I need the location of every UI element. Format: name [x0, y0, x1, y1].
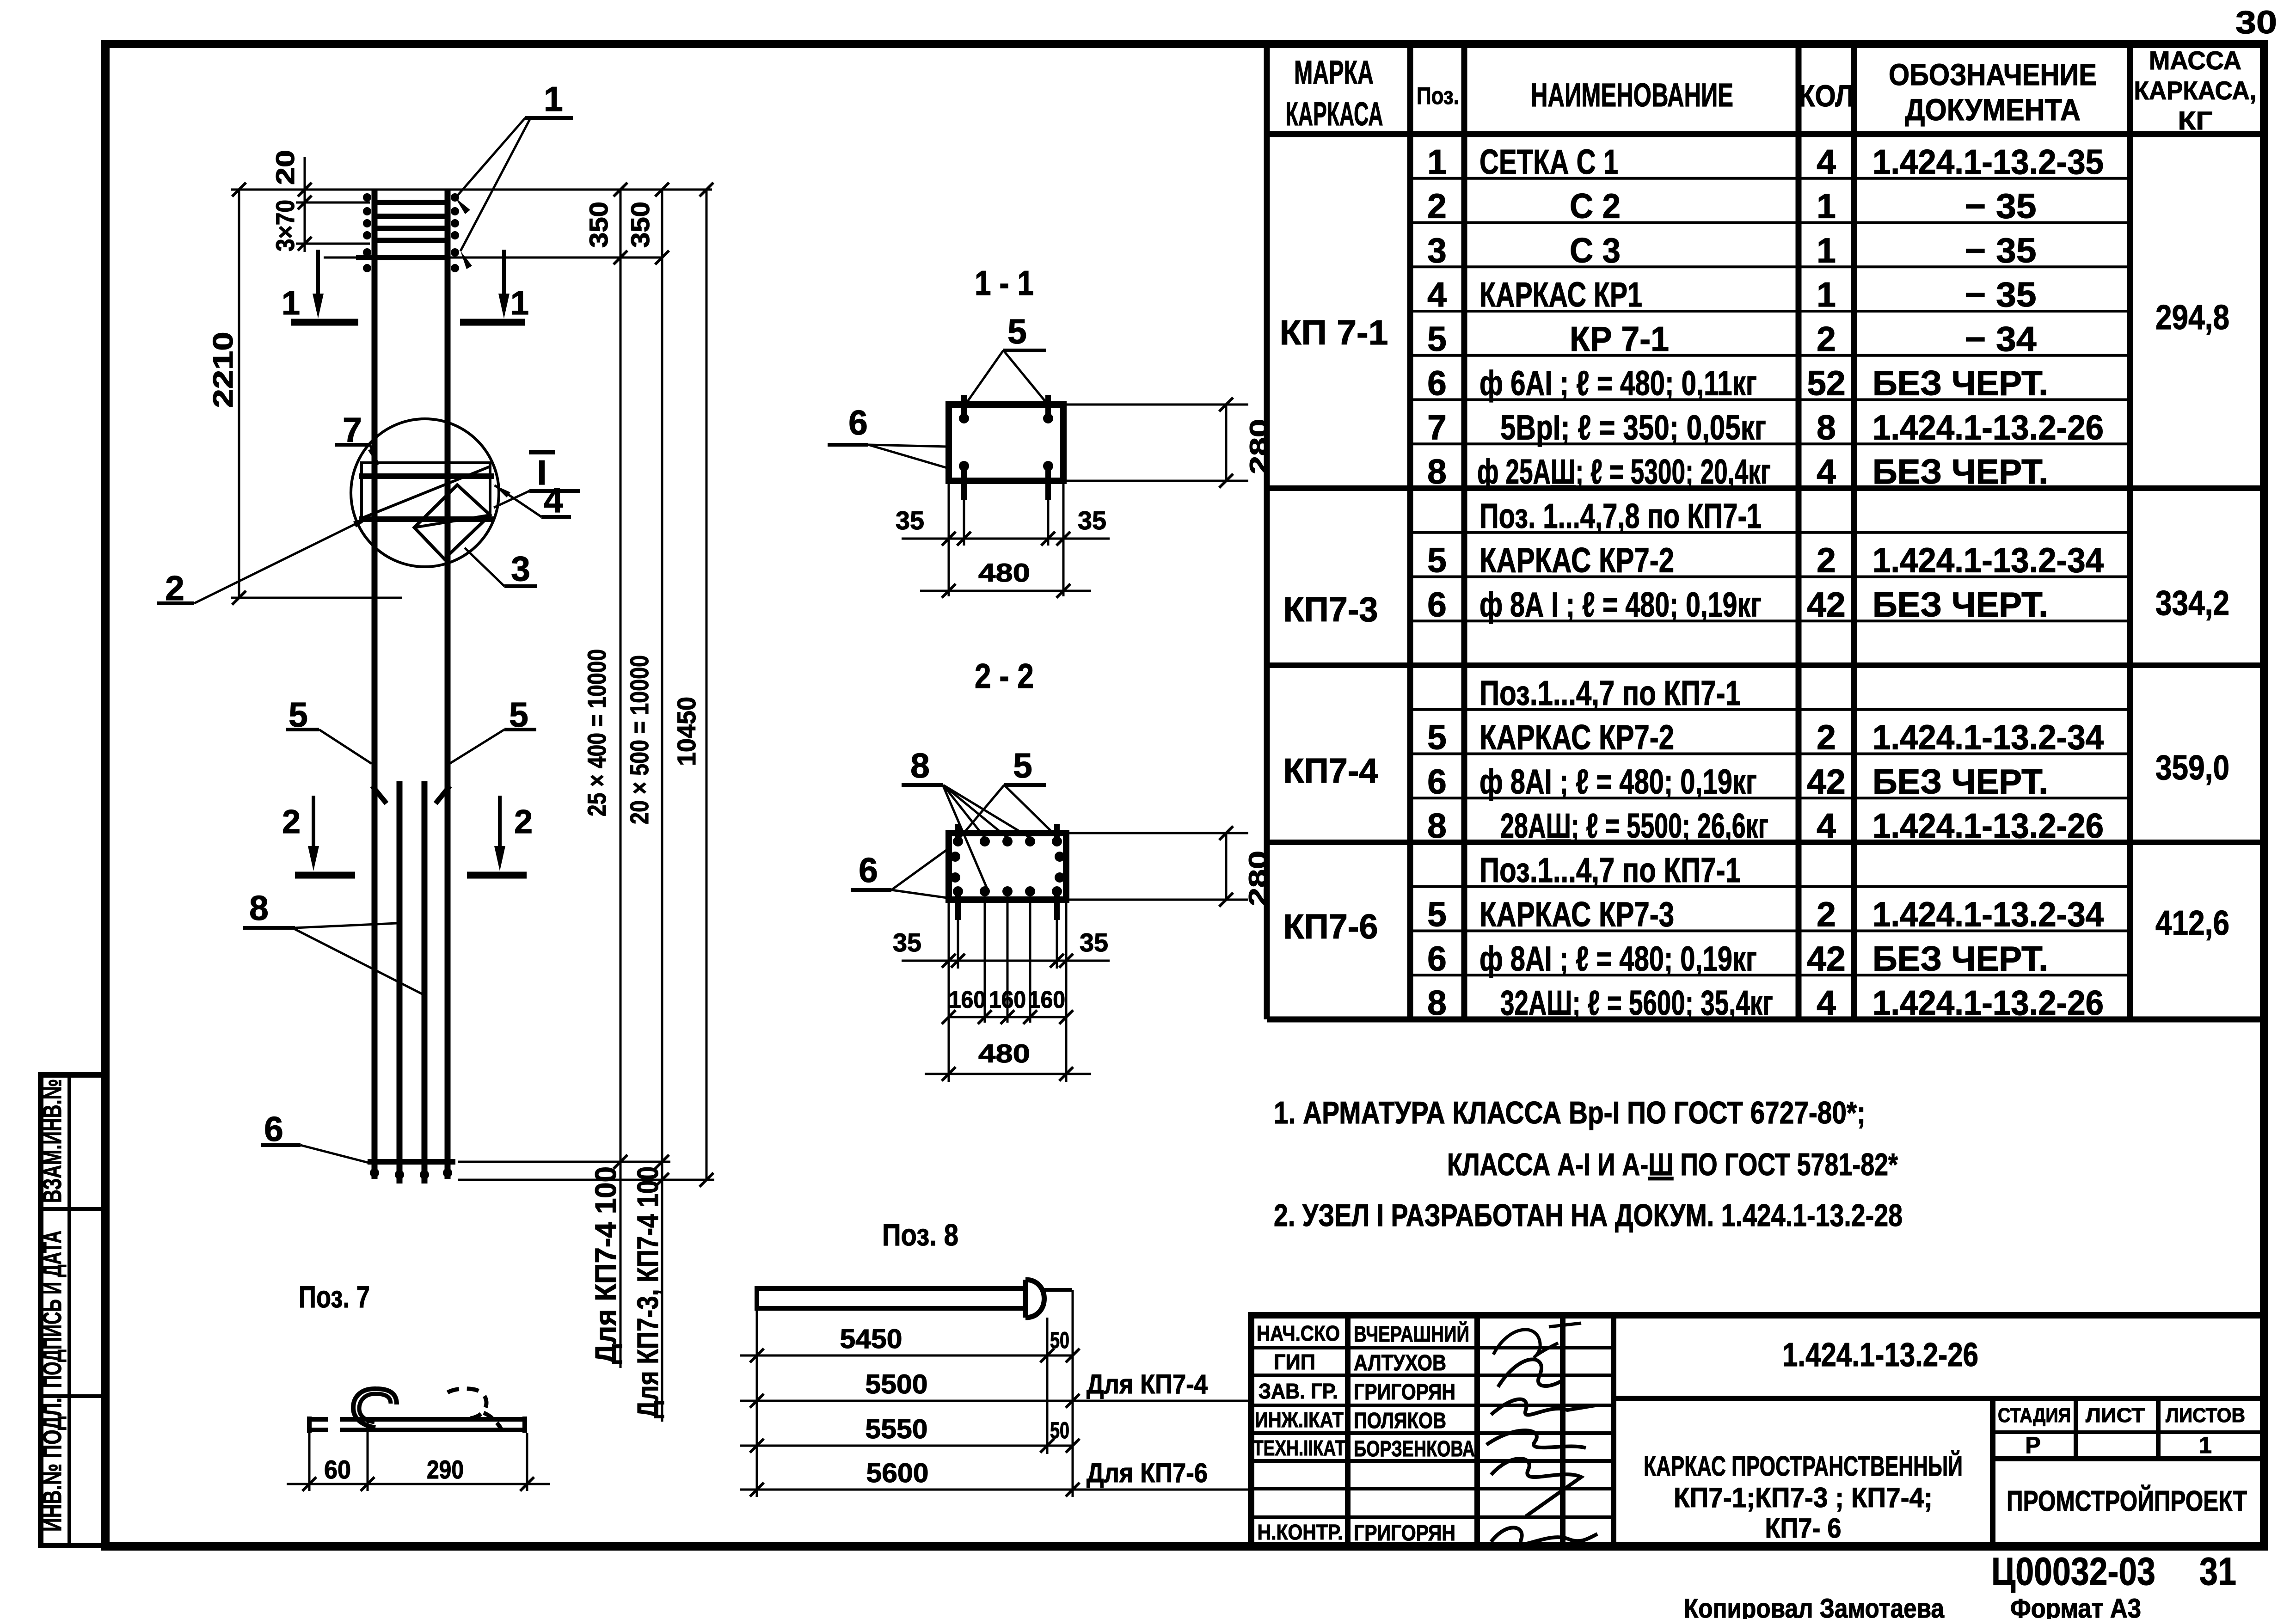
svg-text:КГ: КГ — [2178, 106, 2213, 135]
svg-text:ПОДПИСЬ И ДАТА: ПОДПИСЬ И ДАТА — [37, 1231, 67, 1388]
outer bar left (poz.5) — [372, 190, 378, 1179]
svg-text:7: 7 — [1427, 408, 1447, 447]
left stamp strip — [41, 1075, 105, 1545]
svg-text:ф 8АI ; ℓ = 480; 0,19кг: ф 8АI ; ℓ = 480; 0,19кг — [1480, 939, 1757, 978]
svg-text:ПРОМСТРОЙПРОЕКТ: ПРОМСТРОЙПРОЕКТ — [2007, 1485, 2247, 1517]
svg-text:Для КП7-3, КП7-4 100: Для КП7-3, КП7-4 100 — [631, 1166, 664, 1418]
svg-text:СТАДИЯ: СТАДИЯ — [1998, 1404, 2071, 1427]
svg-text:2: 2 — [1817, 718, 1836, 757]
svg-text:5: 5 — [1007, 312, 1027, 351]
title block outline — [1251, 1315, 2264, 1546]
svg-text:2: 2 — [1427, 187, 1447, 226]
svg-text:Н.КОНТР.: Н.КОНТР. — [1258, 1520, 1343, 1544]
section 2-2 bars top/bottom — [953, 836, 963, 846]
svg-text:БЕЗ ЧЕРТ.: БЕЗ ЧЕРТ. — [1872, 364, 2048, 403]
svg-text:БЕЗ ЧЕРТ.: БЕЗ ЧЕРТ. — [1872, 452, 2048, 491]
svg-text:С 3: С 3 — [1570, 231, 1621, 270]
table outer & column lines — [1264, 44, 1270, 1019]
svg-text:32АШ; ℓ = 5600; 35,4кг: 32АШ; ℓ = 5600; 35,4кг — [1500, 983, 1773, 1022]
svg-text:25 × 400 = 10000: 25 × 400 = 10000 — [582, 649, 611, 816]
section 1-1 dim 280 — [1065, 404, 1248, 406]
svg-text:С 2: С 2 — [1570, 187, 1621, 226]
title block rows left — [1251, 1346, 1614, 1349]
svg-text:КЛАССА А-I И А-Ш ПО ГОСТ 578: КЛАССА А-I И А-Ш ПО ГОСТ 5781-82* — [1447, 1147, 1898, 1182]
svg-text:ИНЖ.IКАТ: ИНЖ.IКАТ — [1255, 1408, 1344, 1432]
svg-text:− 35: − 35 — [1965, 187, 2037, 226]
pos8 hook head — [1025, 1280, 1044, 1318]
svg-text:1.424.1-13.2-26: 1.424.1-13.2-26 — [1872, 408, 2104, 447]
joint rung top — [359, 473, 494, 479]
svg-text:Поз. 8: Поз. 8 — [882, 1218, 958, 1252]
svg-text:350: 350 — [584, 202, 613, 248]
svg-text:42: 42 — [1807, 585, 1845, 624]
svg-text:280: 280 — [1243, 851, 1272, 906]
svg-text:5600: 5600 — [866, 1458, 929, 1488]
svg-text:Поз.: Поз. — [1417, 83, 1459, 110]
svg-text:Р: Р — [2025, 1432, 2040, 1458]
ext rung4 — [296, 243, 370, 245]
svg-text:КП7-3: КП7-3 — [1283, 590, 1378, 629]
svg-text:ВЧЕРАШНИЙ: ВЧЕРАШНИЙ — [1354, 1321, 1469, 1347]
ext line top (y410) — [231, 189, 712, 191]
svg-text:35: 35 — [1080, 928, 1108, 957]
pos8 bar — [757, 1288, 1025, 1308]
svg-text:5: 5 — [1427, 541, 1447, 580]
diamond (setka C3) — [414, 485, 490, 559]
svg-text:ф 8АI ; ℓ = 480; 0,19кг: ф 8АI ; ℓ = 480; 0,19кг — [1480, 762, 1757, 801]
svg-text:160: 160 — [989, 987, 1026, 1013]
pos8 dim 5500 — [740, 1400, 1248, 1402]
svg-text:КП 7-1: КП 7-1 — [1280, 313, 1388, 352]
svg-text:2: 2 — [1817, 319, 1836, 358]
svg-text:1.424.1-13.2-26: 1.424.1-13.2-26 — [1872, 983, 2104, 1022]
svg-text:28АШ; ℓ = 5500; 26,6кг: 28АШ; ℓ = 5500; 26,6кг — [1500, 806, 1768, 845]
svg-text:5450: 5450 — [840, 1324, 902, 1354]
svg-text:ГРИГОРЯН: ГРИГОРЯН — [1354, 1521, 1455, 1545]
svg-text:КАРКАС КР1: КАРКАС КР1 — [1480, 275, 1642, 314]
svg-text:8: 8 — [910, 746, 930, 785]
svg-text:1.424.1-13.2-34: 1.424.1-13.2-34 — [1872, 895, 2104, 934]
svg-text:20 × 500 = 10000: 20 × 500 = 10000 — [625, 655, 654, 824]
section 1-1 bottom dims — [948, 481, 950, 596]
bottom ext line bar end level — [458, 1179, 714, 1181]
svg-text:1.424.1-13.2-34: 1.424.1-13.2-34 — [1872, 718, 2104, 757]
svg-text:2 - 2: 2 - 2 — [975, 656, 1034, 695]
svg-text:Поз.1...4,7 по КП7-1: Поз.1...4,7 по КП7-1 — [1480, 674, 1741, 712]
svg-text:6: 6 — [1427, 762, 1447, 801]
svg-text:1.424.1-13.2-34: 1.424.1-13.2-34 — [1872, 541, 2104, 580]
pos8 dim 5450 — [740, 1355, 1073, 1357]
svg-text:Поз.1...4,7 по КП7-1: Поз.1...4,7 по КП7-1 — [1480, 851, 1741, 889]
svg-text:5: 5 — [1013, 746, 1032, 785]
svg-text:1. АРМАТУРА КЛАССА Вр-I ПО: 1. АРМАТУРА КЛАССА Вр-I ПО ГОСТ 6727-80*… — [1274, 1095, 1866, 1130]
joint rung bottom — [359, 516, 494, 522]
svg-text:6: 6 — [1427, 939, 1447, 978]
svg-text:Для КП7-4 100: Для КП7-4 100 — [589, 1166, 622, 1364]
svg-text:Для КП7-6: Для КП7-6 — [1087, 1458, 1208, 1488]
svg-text:10450: 10450 — [672, 697, 701, 766]
svg-text:ДОКУМЕНТА: ДОКУМЕНТА — [1905, 92, 2081, 127]
svg-text:35: 35 — [893, 928, 921, 957]
svg-text:1: 1 — [544, 80, 563, 118]
pos7 dims — [308, 1433, 311, 1491]
svg-text:Поз. 1...4,7,8 по КП7-1: Поз. 1...4,7,8 по КП7-1 — [1480, 497, 1762, 535]
svg-text:БОРЗЕНКОВА: БОРЗЕНКОВА — [1354, 1437, 1475, 1461]
right dim line 350 #2 — [661, 190, 663, 1422]
svg-text:160: 160 — [1028, 987, 1065, 1013]
svg-text:2: 2 — [1817, 895, 1836, 934]
inner bar 1 (poz.8) — [397, 781, 403, 1184]
svg-text:1 - 1: 1 - 1 — [975, 264, 1034, 302]
svg-text:60: 60 — [324, 1455, 351, 1484]
diamond inner diagonal — [414, 515, 490, 527]
pos8 dim 5600 — [740, 1489, 1248, 1491]
section 2-2 bottom dims 35 — [948, 900, 950, 1082]
svg-text:160: 160 — [949, 987, 986, 1013]
svg-text:5ВрI; ℓ = 350; 0,05кг: 5ВрI; ℓ = 350; 0,05кг — [1500, 408, 1766, 447]
lower mesh rung — [356, 255, 450, 260]
svg-text:350: 350 — [626, 202, 655, 248]
bend mark right bar — [436, 786, 450, 803]
svg-text:1: 1 — [510, 285, 529, 322]
svg-text:Для КП7-4: Для КП7-4 — [1087, 1369, 1208, 1399]
svg-text:КАРКАС КР7-2: КАРКАС КР7-2 — [1480, 718, 1674, 757]
section 1-1 bar stubs — [961, 395, 967, 418]
svg-text:359,0: 359,0 — [2155, 748, 2229, 787]
svg-text:6: 6 — [1427, 585, 1447, 624]
svg-text:ф 8А I ; ℓ = 480; 0,19кг: ф 8А I ; ℓ = 480; 0,19кг — [1480, 585, 1762, 624]
svg-text:1: 1 — [282, 285, 300, 322]
svg-text:8: 8 — [1427, 452, 1447, 491]
svg-text:1: 1 — [1427, 142, 1447, 181]
svg-text:5550: 5550 — [866, 1414, 928, 1444]
svg-text:КАРКАС КР7-3: КАРКАС КР7-3 — [1480, 895, 1674, 934]
svg-text:АЛТУХОВ: АЛТУХОВ — [1354, 1351, 1446, 1375]
svg-text:31: 31 — [2199, 1550, 2236, 1593]
svg-text:8: 8 — [1817, 408, 1836, 447]
svg-text:ЗАВ. ГР.: ЗАВ. ГР. — [1259, 1379, 1338, 1403]
svg-text:ф 6АI ; ℓ = 480; 0,11кг: ф 6АI ; ℓ = 480; 0,11кг — [1480, 364, 1757, 403]
pos7 hook dashed — [448, 1389, 486, 1419]
svg-text:1.424.1-13.2-26: 1.424.1-13.2-26 — [1872, 806, 2104, 845]
svg-text:1: 1 — [1817, 231, 1836, 270]
svg-text:БЕЗ ЧЕРТ.: БЕЗ ЧЕРТ. — [1872, 939, 2048, 978]
svg-text:6: 6 — [848, 403, 868, 442]
signature squiggles — [1493, 1323, 1581, 1357]
svg-text:2210: 2210 — [208, 332, 239, 408]
svg-text:4: 4 — [1427, 275, 1447, 314]
svg-text:1: 1 — [1817, 275, 1836, 314]
svg-text:ТЕХН.IIКАТ: ТЕХН.IIКАТ — [1253, 1436, 1345, 1460]
bottom ext line rung level — [458, 1161, 670, 1163]
dim 2210 line — [238, 190, 240, 598]
svg-text:БЕЗ ЧЕРТ.: БЕЗ ЧЕРТ. — [1872, 762, 2048, 801]
svg-text:Копировал Замотаева: Копировал Замотаева — [1684, 1594, 1945, 1619]
svg-text:334,2: 334,2 — [2155, 583, 2229, 622]
svg-text:4: 4 — [1817, 452, 1836, 491]
svg-text:БЕЗ ЧЕРТ.: БЕЗ ЧЕРТ. — [1872, 585, 2048, 624]
svg-text:2: 2 — [1817, 541, 1836, 580]
svg-text:35: 35 — [896, 506, 924, 535]
table row lines — [1410, 177, 2130, 180]
dim 20/3x70 line — [304, 157, 306, 252]
karkas KR1 box — [362, 463, 490, 519]
svg-text:5: 5 — [1427, 718, 1447, 757]
section 2-2 dim 480 — [925, 1073, 1091, 1075]
pos7 bar dashed part — [309, 1417, 356, 1422]
svg-text:6: 6 — [1427, 364, 1447, 403]
title block verticals — [1345, 1315, 1351, 1546]
svg-text:ВЗАМ.ИНВ.№: ВЗАМ.ИНВ.№ — [37, 1079, 67, 1203]
svg-text:4: 4 — [1817, 142, 1836, 181]
svg-text:ОБОЗНАЧЕНИЕ: ОБОЗНАЧЕНИЕ — [1889, 57, 2097, 92]
svg-text:ф 25АШ; ℓ = 5300; 20,4кг: ф 25АШ; ℓ = 5300; 20,4кг — [1477, 452, 1771, 491]
svg-text:480: 480 — [978, 1039, 1030, 1068]
svg-text:ГИП: ГИП — [1274, 1350, 1315, 1374]
svg-text:6: 6 — [859, 851, 878, 889]
svg-text:− 35: − 35 — [1965, 275, 2037, 314]
mesh rungs (setka C1) — [372, 200, 450, 205]
svg-text:280: 280 — [1244, 419, 1273, 474]
right dim line 350 #1 — [620, 190, 622, 1368]
svg-text:42: 42 — [1807, 762, 1845, 801]
svg-text:ЛИСТ: ЛИСТ — [2086, 1404, 2145, 1427]
svg-text:3: 3 — [1427, 231, 1447, 270]
svg-text:КАРКАСА,: КАРКАСА, — [2134, 76, 2257, 105]
svg-text:1: 1 — [1817, 187, 1836, 226]
svg-text:8: 8 — [249, 889, 269, 927]
svg-text:50: 50 — [1050, 1327, 1069, 1353]
svg-text:35: 35 — [1078, 506, 1106, 535]
pos8 dim 5550 — [740, 1445, 1073, 1447]
svg-text:2: 2 — [514, 803, 533, 840]
svg-text:4: 4 — [544, 481, 563, 520]
bottom rung (poz.6) — [368, 1159, 455, 1165]
section 1-1 corner bars — [959, 413, 969, 423]
svg-text:5: 5 — [1427, 319, 1447, 358]
callout 1 leaders — [455, 118, 525, 198]
hook dots on bars — [363, 193, 371, 202]
svg-text:ГРИГОРЯН: ГРИГОРЯН — [1354, 1380, 1455, 1404]
section 2-2 bar stubs — [955, 824, 961, 839]
svg-text:3: 3 — [511, 549, 530, 588]
svg-text:МАРКА: МАРКА — [1294, 55, 1374, 91]
svg-text:4: 4 — [1817, 983, 1836, 1022]
pos8 ext lines — [756, 1308, 758, 1497]
pos7 hook solid outer — [353, 1389, 397, 1428]
ext rung5 (y557) — [324, 257, 661, 259]
svg-text:2: 2 — [282, 803, 301, 840]
svg-text:КАРКАС КР7-2: КАРКАС КР7-2 — [1480, 541, 1674, 580]
section 2-2 dims 160 — [984, 901, 986, 1023]
svg-text:НАЧ.СКО: НАЧ.СКО — [1257, 1321, 1340, 1345]
svg-text:294,8: 294,8 — [2155, 298, 2229, 337]
pos7 bar solid part — [356, 1417, 525, 1422]
section 1-1 frame (karkas) — [949, 405, 1063, 481]
svg-text:52: 52 — [1807, 364, 1845, 403]
outer bar right (poz.5) — [445, 190, 451, 1179]
svg-text:Поз. 7: Поз. 7 — [299, 1280, 370, 1314]
svg-text:3×70: 3×70 — [270, 200, 300, 251]
svg-text:КАРКАС ПРОСТРАНСТВЕННЫЙ: КАРКАС ПРОСТРАНСТВЕННЫЙ — [1644, 1451, 1963, 1482]
section 2-2 bars sides — [950, 852, 960, 862]
svg-text:5500: 5500 — [866, 1369, 928, 1399]
overall dim line 10450 — [706, 190, 708, 1180]
svg-text:8: 8 — [1427, 983, 1447, 1022]
svg-text:КП7-1;КП7-3 ; КП7-4;: КП7-1;КП7-3 ; КП7-4; — [1674, 1482, 1933, 1513]
svg-text:8: 8 — [1427, 806, 1447, 845]
svg-text:20: 20 — [270, 150, 300, 185]
svg-text:6: 6 — [264, 1110, 283, 1148]
svg-text:КП7-6: КП7-6 — [1283, 907, 1378, 946]
joint diagonal — [362, 466, 490, 518]
svg-text:42: 42 — [1807, 939, 1845, 978]
svg-text:КОЛ: КОЛ — [1799, 79, 1854, 113]
svg-text:1.424.1-13.2-35: 1.424.1-13.2-35 — [1872, 142, 2104, 181]
ext rung1 — [296, 202, 370, 204]
svg-text:412,6: 412,6 — [2155, 903, 2229, 942]
svg-text:КП7- 6: КП7- 6 — [1765, 1513, 1842, 1544]
svg-text:КР 7-1: КР 7-1 — [1570, 319, 1669, 358]
svg-text:1: 1 — [2199, 1432, 2212, 1458]
bend mark left bar — [372, 786, 387, 803]
inner bar 2 (poz.8) — [422, 781, 428, 1184]
svg-text:5: 5 — [1427, 895, 1447, 934]
svg-text:Формат А3: Формат А3 — [2010, 1594, 2141, 1619]
svg-text:4: 4 — [1817, 806, 1836, 845]
svg-text:30: 30 — [2235, 4, 2277, 40]
section 2-2 dim 280 — [1068, 832, 1248, 834]
svg-text:ПОЛЯКОВ: ПОЛЯКОВ — [1354, 1409, 1446, 1433]
svg-text:2. УЗЕЛ I РАЗРАБОТАН НА ДО: 2. УЗЕЛ I РАЗРАБОТАН НА ДОКУМ. 1.424.1-1… — [1274, 1198, 1903, 1233]
section 2-2 frame — [949, 833, 1066, 900]
svg-text:− 34: − 34 — [1965, 319, 2037, 358]
svg-text:СЕТКА С 1: СЕТКА С 1 — [1480, 142, 1618, 181]
svg-text:1.424.1-13.2-26: 1.424.1-13.2-26 — [1782, 1337, 1978, 1374]
bottom hook dots — [370, 1168, 379, 1177]
svg-text:МАССА: МАССА — [2149, 46, 2241, 75]
title block right structure — [1614, 1396, 2264, 1401]
svg-text:290: 290 — [427, 1455, 464, 1484]
svg-text:480: 480 — [978, 558, 1030, 587]
svg-text:НАИМЕНОВАНИЕ: НАИМЕНОВАНИЕ — [1531, 77, 1733, 114]
detail circle uzel I — [351, 419, 499, 567]
svg-text:Ц00032-03: Ц00032-03 — [1991, 1550, 2155, 1593]
svg-text:50: 50 — [1050, 1417, 1069, 1443]
table header line — [1267, 131, 2264, 137]
ext line y1293 — [231, 597, 402, 599]
svg-text:ИНВ.№ ПОДЛ.: ИНВ.№ ПОДЛ. — [37, 1398, 67, 1532]
svg-text:ЛИСТОВ: ЛИСТОВ — [2166, 1404, 2245, 1427]
svg-text:− 35: − 35 — [1965, 231, 2037, 270]
pos7 hook solid inner — [359, 1394, 391, 1422]
svg-text:КАРКАСА: КАРКАСА — [1286, 96, 1383, 133]
svg-text:КП7-4: КП7-4 — [1283, 751, 1378, 790]
